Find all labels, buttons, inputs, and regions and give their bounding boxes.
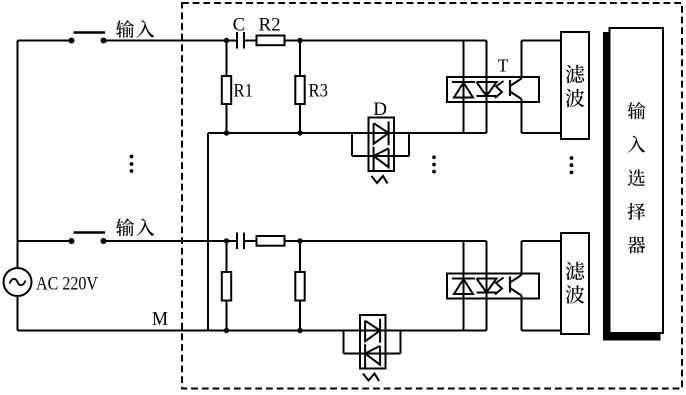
svg-text:T: T [498, 56, 509, 76]
svg-text:C: C [233, 14, 246, 35]
svg-text:R2: R2 [259, 14, 281, 35]
svg-text:M: M [152, 308, 168, 330]
svg-text:R1: R1 [234, 81, 254, 102]
svg-text:AC 220V: AC 220V [36, 274, 98, 295]
svg-text:R3: R3 [309, 81, 329, 102]
svg-text:D: D [373, 99, 387, 120]
